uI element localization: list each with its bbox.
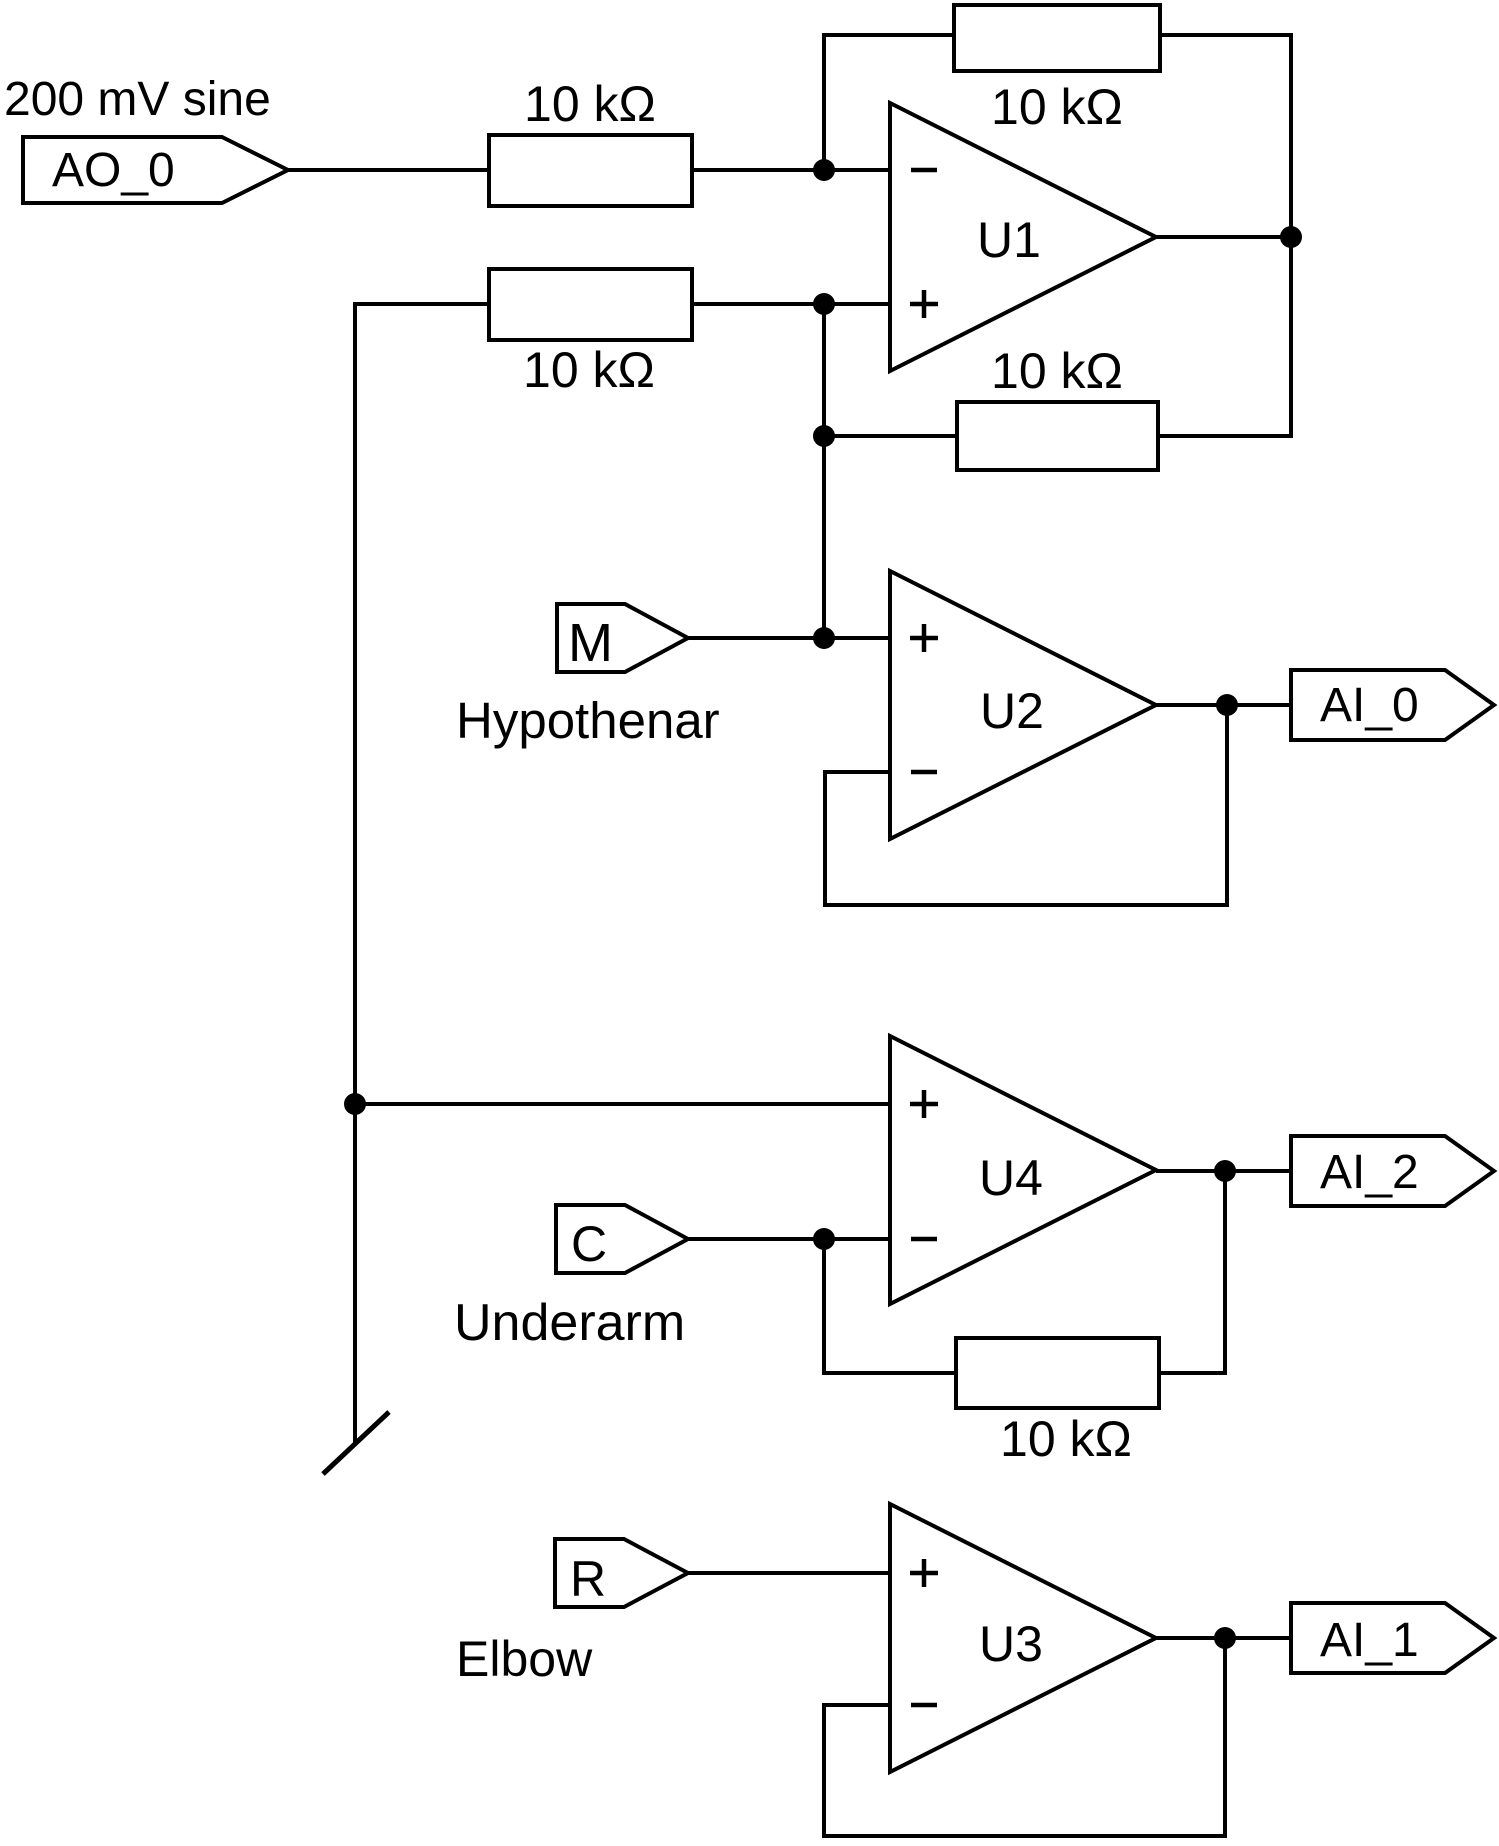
wire node to R3 left	[824, 434, 957, 438]
junction U1 non-inverting input node	[813, 293, 835, 315]
resistor R3 10 kΩ lower feedback	[957, 402, 1158, 470]
svg-text:10 kΩ: 10 kΩ	[524, 76, 656, 132]
wire AO_0 to R1	[288, 168, 489, 172]
resistor R1 10 kΩ	[489, 135, 692, 206]
wire inverting node up to feedback resistor R2	[824, 35, 954, 170]
svg-text:AI_2: AI_2	[1320, 1146, 1419, 1199]
op-amp U1	[890, 103, 1156, 371]
junction U4 output node	[1214, 1160, 1236, 1182]
wire R2 right down right-side vertical to R3	[1158, 35, 1291, 436]
wire U1 output	[1156, 235, 1291, 239]
wire R5 right up to U4 output	[1159, 1171, 1225, 1373]
wire U2 feedback loop	[825, 705, 1227, 905]
junction U3 output node	[1214, 1627, 1236, 1649]
wire U3 output to AI_1	[1156, 1636, 1291, 1640]
wire R4 to U1 non-inverting input	[692, 302, 890, 306]
junction U2 output node	[1216, 694, 1238, 716]
wire U4 output to AI_2	[1156, 1169, 1291, 1173]
resistor R4 10 kΩ second input	[489, 269, 692, 340]
input flag AO_0	[23, 137, 288, 203]
wire R1 to U1 inverting input	[692, 168, 890, 172]
svg-text:Elbow: Elbow	[456, 1631, 593, 1687]
wire rail junction to U4 non-inverting input	[355, 1102, 890, 1106]
output flag AI_2	[1291, 1136, 1494, 1206]
output flag AI_0	[1291, 670, 1494, 740]
junction U1 output node	[1280, 226, 1302, 248]
svg-text:200 mV sine: 200 mV sine	[4, 73, 271, 126]
input flag M	[557, 604, 688, 673]
resistor R2 10 kΩ feedback top	[954, 5, 1160, 71]
junction U1 inverting input node	[813, 159, 835, 181]
svg-text:U2: U2	[980, 683, 1044, 739]
output flag AI_1	[1291, 1603, 1494, 1673]
resistor R5 10 kΩ U4 feedback	[956, 1338, 1159, 1408]
svg-text:AI_1: AI_1	[1320, 1614, 1419, 1667]
wire M flag to U2 non-inverting input	[688, 636, 890, 640]
op-amp U3	[890, 1504, 1156, 1772]
op-amp U2	[890, 571, 1156, 839]
op-amp U4	[890, 1036, 1156, 1304]
svg-text:10 kΩ: 10 kΩ	[1000, 1411, 1132, 1467]
junction C node	[813, 1228, 835, 1250]
svg-text:C: C	[571, 1216, 607, 1272]
wire R4 left to long vertical rail down to break	[355, 304, 489, 1443]
wire non-inverting node down to M junction	[822, 304, 826, 637]
svg-text:10 kΩ: 10 kΩ	[991, 343, 1123, 399]
wire break slash	[323, 1412, 389, 1474]
svg-text:AO_0: AO_0	[52, 144, 175, 197]
svg-text:10 kΩ: 10 kΩ	[991, 79, 1123, 135]
svg-text:R: R	[570, 1551, 606, 1607]
svg-text:10 kΩ: 10 kΩ	[523, 342, 655, 398]
svg-text:M: M	[568, 613, 613, 673]
wire R flag to U3 non-inverting input	[688, 1571, 890, 1575]
svg-text:U3: U3	[979, 1616, 1043, 1672]
wire U2 output to AI_0	[1156, 703, 1291, 707]
input flag C	[556, 1205, 688, 1273]
wire U3 feedback loop	[824, 1638, 1225, 1836]
svg-text:AI_0: AI_0	[1320, 679, 1419, 732]
wire C junction down to R5 left	[824, 1239, 956, 1373]
junction rail to U4 node	[344, 1093, 366, 1115]
junction M node	[813, 627, 835, 649]
wire C flag to U4 inverting input	[688, 1237, 890, 1241]
svg-text:Underarm: Underarm	[454, 1294, 685, 1352]
junction R3 node	[813, 425, 835, 447]
svg-text:U1: U1	[977, 212, 1041, 268]
input flag R	[555, 1539, 688, 1607]
svg-text:Hypothenar: Hypothenar	[456, 692, 720, 749]
svg-text:U4: U4	[979, 1150, 1043, 1206]
